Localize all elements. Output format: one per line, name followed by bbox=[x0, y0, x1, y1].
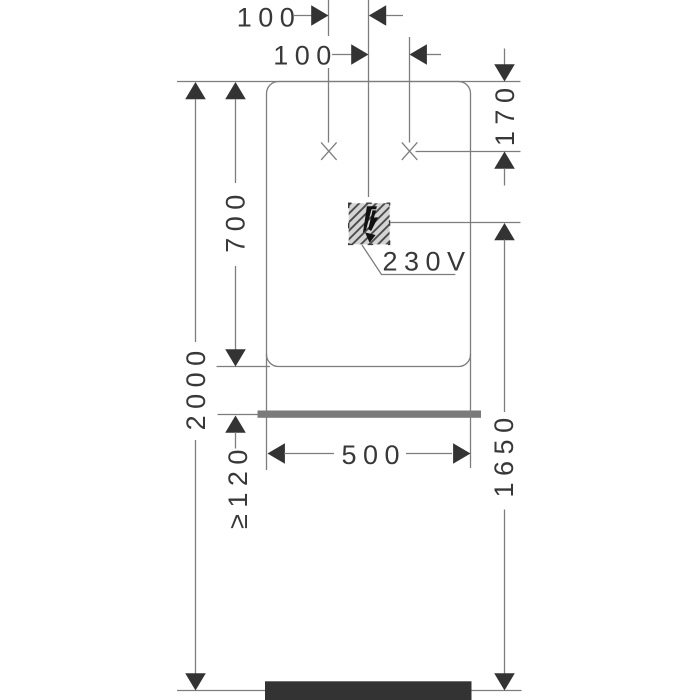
lightning bolt bbox=[363, 206, 378, 243]
X mark left bbox=[321, 142, 337, 160]
line from right X to 170 dimension bbox=[416, 151, 521, 153]
svg-text:500: 500 bbox=[342, 440, 407, 470]
power box hatched bbox=[304, 190, 441, 250]
floor line bbox=[177, 690, 522, 692]
dimension 2000 far left bbox=[181, 82, 211, 691]
dimension 100 row1 bbox=[237, 3, 403, 33]
dimension >=120 bbox=[223, 416, 253, 529]
shelf reference line left bbox=[218, 414, 268, 416]
svg-text:100: 100 bbox=[273, 40, 338, 70]
leader line to 230V bbox=[362, 245, 455, 275]
shelf bar bbox=[258, 411, 482, 418]
dimension 170 right bbox=[490, 49, 520, 186]
svg-text:170: 170 bbox=[490, 82, 520, 147]
plinth bar bottom bbox=[265, 681, 472, 700]
svg-text:700: 700 bbox=[221, 188, 251, 253]
mirror outline bbox=[267, 82, 471, 367]
dimension 500 bbox=[268, 440, 471, 470]
svg-text:1650: 1650 bbox=[489, 411, 519, 497]
svg-text:≥120: ≥120 bbox=[223, 443, 253, 529]
extension line below mirror left bbox=[266, 354, 268, 470]
tick line row1 left bbox=[328, 0, 330, 36]
wall top line bbox=[177, 81, 521, 83]
extension line to left X bbox=[328, 68, 330, 143]
centre line bbox=[368, 0, 370, 197]
dimension 100 row2 bbox=[273, 40, 441, 70]
extension line below mirror right bbox=[470, 354, 472, 468]
dimension 1650 right bbox=[489, 223, 519, 691]
tick line row2 right / extension to right X bbox=[409, 37, 411, 143]
svg-text:100: 100 bbox=[237, 3, 302, 33]
line from power box to 1650 dimension bbox=[391, 222, 521, 224]
svg-text:230V: 230V bbox=[383, 246, 472, 276]
mirror bottom extension line left bbox=[217, 366, 271, 368]
svg-text:2000: 2000 bbox=[181, 344, 211, 430]
X mark right bbox=[402, 142, 418, 160]
dimension 700 left bbox=[221, 82, 251, 367]
